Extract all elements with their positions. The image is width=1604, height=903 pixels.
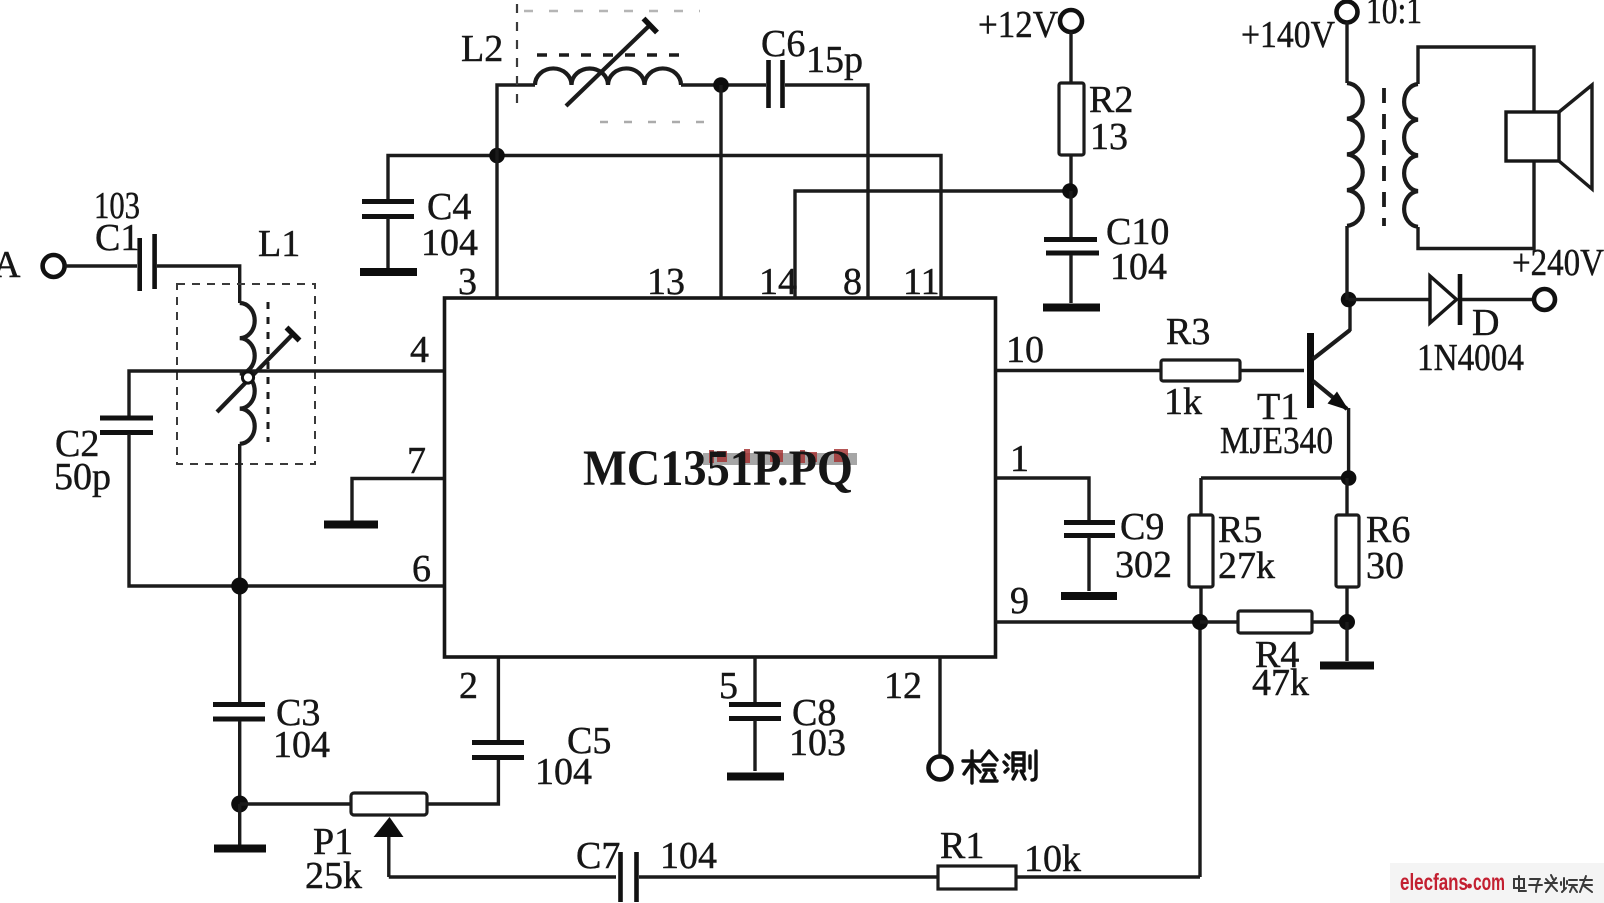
pin 1 wire to C9 (996, 478, 1089, 520)
junction L1/pin6 (231, 578, 248, 595)
svg-text:12: 12 (884, 665, 922, 707)
svg-text:104: 104 (421, 222, 478, 264)
top bus wire (C4 / pin3 / pin11) (388, 156, 941, 299)
wire P1 wiper to bottom rail (389, 875, 616, 878)
svg-text:L1: L1 (258, 223, 300, 265)
capacitor C2 (54, 418, 153, 498)
watermark Chinese characters (1514, 875, 1592, 892)
svg-text:13: 13 (1090, 116, 1128, 158)
inductor L1 (tunable) (177, 223, 315, 464)
resistor R5 (1189, 478, 1275, 622)
terminal +240V (1512, 242, 1604, 310)
svg-text:10k: 10k (1024, 838, 1081, 880)
watermark band (1390, 863, 1604, 903)
svg-text:9: 9 (1010, 580, 1029, 622)
diode D 1N4004 (1417, 274, 1524, 379)
wire emitter node to R5 top (1201, 476, 1349, 479)
wire L1 bottom down to C3 (238, 444, 241, 702)
capacitor C7 (576, 835, 717, 902)
wire R1 to riser (1016, 875, 1200, 878)
resistor R6 (1336, 478, 1410, 622)
pin 10 wire to R3 (996, 369, 1161, 372)
junction emitter/R6 (1341, 470, 1357, 486)
svg-text:R3: R3 (1166, 311, 1210, 353)
svg-text:C7: C7 (576, 835, 620, 877)
capacitor C6 (761, 23, 863, 108)
svg-text:25k: 25k (305, 855, 362, 897)
transformer secondary (1404, 84, 1418, 227)
capacitor C5 (472, 720, 611, 793)
ground below C3 (214, 804, 266, 849)
pin 7 ground (324, 440, 444, 525)
capacitor C10 (1044, 191, 1169, 288)
capacitor C8 (729, 692, 846, 764)
svg-text:R1: R1 (940, 825, 984, 867)
junction L2/pin13 (713, 77, 729, 93)
svg-text:3: 3 (458, 261, 477, 303)
wire C6 to pin 8 (785, 85, 868, 298)
svg-text:302: 302 (1115, 544, 1172, 586)
svg-text:5: 5 (719, 665, 738, 707)
wire pin 14 to R2 node (795, 191, 1070, 298)
L1 wiper contact circle (242, 372, 253, 383)
svg-text:com: com (1473, 869, 1505, 895)
label detect (Chinese) (963, 751, 1036, 783)
ground below C8 (727, 720, 784, 777)
svg-text:10: 10 (1006, 329, 1044, 371)
resistor R3 (1161, 311, 1240, 423)
wire primary to collector node (1345, 226, 1348, 300)
svg-text:14: 14 (759, 261, 797, 303)
svg-text:47k: 47k (1252, 662, 1309, 704)
svg-text:104: 104 (535, 751, 592, 793)
wire diode to +240V (1462, 298, 1534, 301)
wire secondary bottom to speaker (1418, 159, 1534, 249)
pin 5 wire (753, 657, 756, 702)
svg-text:2: 2 (459, 665, 478, 707)
terminal +140V / 10:1 (1241, 0, 1422, 56)
svg-text:6: 6 (412, 548, 431, 590)
transistor T1 MJE340 (1220, 300, 1350, 478)
wire C2 bottom to pin6 wire (129, 434, 444, 586)
wire C3 to P1 node (238, 721, 241, 804)
wire secondary top to speaker (1418, 47, 1534, 114)
svg-text:30: 30 (1366, 545, 1404, 587)
svg-text:15p: 15p (806, 39, 863, 81)
svg-text:11: 11 (903, 261, 940, 303)
wire L2 left / pin 3 (497, 85, 535, 298)
speaker SP (1506, 85, 1592, 189)
resistor R2 (1059, 79, 1133, 158)
capacitor C1 (94, 185, 155, 291)
pin 9 wire (996, 620, 1200, 623)
wire P1 to C5 bottom (427, 759, 498, 804)
wire C1 to L1 top (157, 266, 240, 303)
watermark elecfans.com (1400, 869, 1505, 895)
svg-text:103: 103 (789, 722, 846, 764)
svg-text:C6: C6 (761, 23, 805, 65)
ground below R6 (1320, 622, 1374, 666)
svg-text:7: 7 (407, 440, 426, 482)
wire riser to pin9 node (1198, 622, 1201, 877)
junction R4/R6 (1339, 614, 1355, 630)
terminal A (0, 244, 65, 286)
wire C5 to pin 2 (497, 657, 500, 740)
potentiometer P1 (305, 793, 427, 897)
svg-text:10:1: 10:1 (1366, 0, 1422, 32)
junction collector node (1341, 292, 1357, 308)
terminal detect (jiance) (929, 757, 952, 780)
wire node to diode (1349, 298, 1429, 301)
svg-text:R2: R2 (1089, 79, 1133, 121)
svg-text:4: 4 (410, 329, 429, 371)
svg-text:1k: 1k (1164, 381, 1202, 423)
svg-text:104: 104 (660, 835, 717, 877)
pin 12 wire (938, 657, 941, 757)
svg-text:A: A (0, 244, 21, 286)
svg-text:MC1351P.PQ: MC1351P.PQ (583, 441, 853, 497)
svg-text:L2: L2 (461, 28, 503, 70)
svg-text:13: 13 (647, 261, 685, 303)
svg-text:50p: 50p (54, 456, 111, 498)
ground below C9 (1061, 537, 1117, 596)
inductor L2 (tunable) (461, 4, 706, 122)
resistor R1 (938, 825, 1081, 889)
capacitor C9 (1064, 506, 1172, 586)
wire node to P1 (240, 802, 351, 805)
wire R3 to T1 base (1240, 369, 1304, 372)
wire A to C1 (65, 264, 137, 267)
transformer core (1382, 88, 1386, 226)
wire +12V to R2 (1069, 32, 1072, 83)
wire C7 to R1 (639, 875, 938, 878)
transformer TR primary (1347, 83, 1363, 226)
capacitor C4 (362, 186, 478, 264)
terminal +12V (978, 4, 1082, 46)
svg-text:1: 1 (1010, 438, 1029, 480)
junction pin9/R5/R4/riser (1192, 614, 1208, 630)
IC U1 MC1351P.PQ (445, 298, 996, 657)
junction C3/P1 (231, 796, 248, 813)
svg-text:1N4004: 1N4004 (1417, 337, 1524, 379)
svg-text:+140V: +140V (1241, 14, 1335, 56)
wire L2 right to C6 (681, 83, 766, 86)
svg-text:8: 8 (843, 261, 862, 303)
wire pin 13 (719, 85, 722, 298)
svg-text:104: 104 (273, 724, 330, 766)
wire +140V to transformer primary (1345, 22, 1348, 83)
svg-text:C1: C1 (95, 217, 139, 259)
svg-text:elecfans: elecfans (1400, 869, 1468, 895)
ground below C4 (360, 218, 417, 272)
wire pin4 from C2 top through L1 to IC (129, 371, 444, 416)
capacitor C3 (213, 692, 330, 766)
svg-text:MJE340: MJE340 (1220, 420, 1333, 462)
junction R2/C10/pin14 (1062, 183, 1078, 199)
svg-text:104: 104 (1110, 246, 1167, 288)
ground below C10 (1043, 255, 1100, 308)
svg-text:27k: 27k (1218, 545, 1275, 587)
resistor R4 (1200, 611, 1347, 704)
junction bus/L2 left (489, 148, 505, 164)
wire R2 to node (1069, 155, 1072, 191)
svg-text:C9: C9 (1120, 506, 1164, 548)
svg-text:+12V: +12V (978, 4, 1059, 46)
